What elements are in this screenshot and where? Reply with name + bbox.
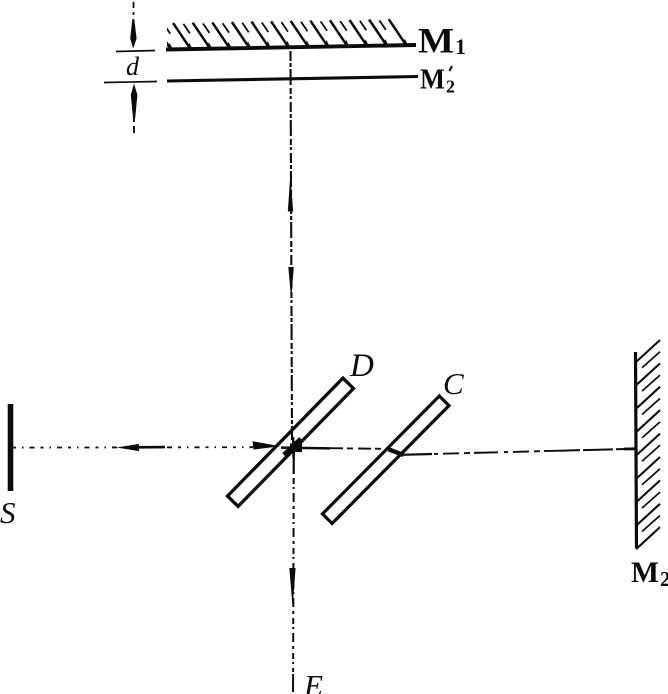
arrow down from M1 — [288, 267, 294, 299]
label M2' — [420, 64, 455, 97]
virtual mirror image M2' line — [167, 77, 418, 82]
vertical ray: beamsplitter up to mirrors (dashed) — [291, 51, 293, 440]
dimension dashed line above — [133, 2, 135, 20]
ray segment compensator to mirror M2 (solid then dashed) — [402, 453, 432, 456]
label M2 — [631, 556, 668, 591]
dimension arrow pointing up to M2' — [131, 84, 138, 119]
refracted ray inside compensator C — [389, 449, 404, 455]
svg-text:d: d — [126, 52, 140, 81]
dimension extension tick at M2' level — [104, 82, 157, 83]
arrow down toward E — [289, 568, 295, 607]
mirror M2 hatching — [636, 340, 660, 549]
ray segment beamsplitter to compensator (dashed) — [330, 447, 384, 450]
vertical ray: beamsplitter down to eye E (dashed) — [293, 450, 295, 474]
dimension dashed line below — [133, 114, 135, 133]
svg-text:M: M — [420, 64, 445, 96]
beamsplitter plate D — [228, 378, 354, 506]
arrow up toward M1 — [288, 175, 293, 212]
mirror M1 surface line — [166, 45, 416, 50]
svg-text:M: M — [418, 21, 454, 61]
svg-text:M: M — [631, 556, 659, 589]
arrow pointing left toward S — [117, 444, 166, 451]
svg-text:C: C — [443, 366, 464, 401]
label M1 — [418, 21, 466, 61]
svg-text:1: 1 — [455, 34, 466, 59]
dimension arrow pointing down to M1 — [130, 20, 136, 49]
source S slit bar — [8, 404, 14, 491]
junction blob at beamsplitter crossing — [281, 437, 330, 458]
horizontal ray: S to beamsplitter (dashed) — [13, 446, 253, 448]
svg-text:2: 2 — [660, 567, 668, 591]
junction at mirror M2 — [624, 447, 635, 450]
arrow pointing right into beamsplitter — [253, 441, 281, 449]
svg-text:2: 2 — [446, 77, 455, 97]
svg-text:E: E — [303, 668, 323, 694]
svg-text:D: D — [349, 348, 374, 384]
svg-text:S: S — [0, 495, 16, 530]
dimension extension tick at M1 level — [116, 51, 155, 52]
compensator plate C — [322, 396, 449, 523]
mirror M2 surface line — [636, 352, 637, 548]
